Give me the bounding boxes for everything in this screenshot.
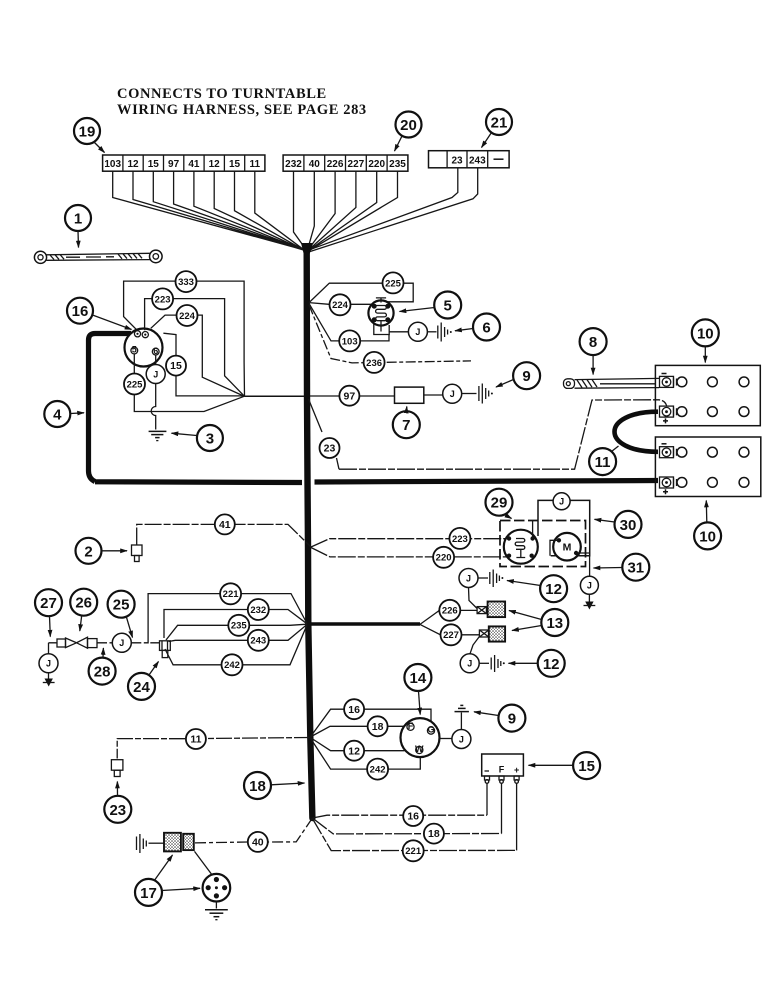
harness apex junction blob [301,243,313,254]
svg-text:13: 13 [546,615,563,632]
wire 11 from trunk to plug 23 [117,738,310,759]
svg-text:235: 235 [389,159,406,170]
wire 242 trunk to distributor bottom [310,738,420,769]
wire label 225 right [383,272,404,293]
upper ground wire from fitting to J [469,588,478,609]
wire 243 bundle left [169,625,308,642]
wire 225 from pin 5 down and to junction [134,354,244,412]
plug (item 23) [111,760,123,777]
terminal strip row 3 (blank, 23, 243, dash) [429,151,510,168]
callout circle 23 [104,782,131,823]
svg-text:16: 16 [72,303,89,320]
callout circle 16 [67,298,132,330]
wire 23 from trunk to battery negative [309,399,340,469]
svg-text:26: 26 [75,595,92,612]
junction circle J on 31 wire [580,576,598,594]
wire 220 from trunk to solenoid [311,548,509,557]
callout circle 1 [65,205,91,248]
svg-text:15: 15 [578,758,595,775]
callout circle 14 [404,664,431,715]
wire 221 bundle left [148,594,307,644]
svg-text:10: 10 [697,325,714,342]
junction circle J on housing top [553,493,570,510]
svg-text:224: 224 [332,300,349,311]
svg-text:103: 103 [104,159,121,170]
wire 16 bottom: trunk to regulator terminal 1 [312,815,487,818]
sender plug (item 2) [132,545,143,562]
lower fuse body (item 13) [489,626,505,641]
svg-text:220: 220 [368,159,385,170]
wire J to ground bars lower [479,662,489,664]
battery 2 terminal clamp upper (negative) [660,444,677,458]
callout circle 31 [594,554,650,581]
wire corner down to J ground (27) [48,643,50,654]
component 1 : link rod with ring ends [34,250,162,263]
callout circle 25 [108,591,135,638]
wire label 40 [248,832,268,852]
wire label 223 [152,288,173,309]
svg-text:97: 97 [344,390,356,402]
svg-text:J: J [587,581,592,591]
spray ground under J (27) [43,679,55,687]
callout circle 19 [74,118,105,153]
wire 103 from trunk to horn bracket [309,304,389,341]
earth ground (bottom, item 17) [205,910,228,920]
ground symbol (12 upper) vertical bars [490,570,504,588]
wire 225 (right) from trunk to horn top [309,283,413,302]
callout circle 21 [482,109,513,148]
motor internal wires [550,540,590,555]
pin 6 [152,348,159,355]
svg-text:3: 3 [206,431,214,448]
svg-text:+: + [514,765,519,775]
connector plug (item 24) [160,641,171,658]
callout circle 12 lower [509,650,565,677]
svg-text:1: 1 [74,211,82,228]
junction circle J at distributor [452,730,471,749]
callout circle 8 [580,328,607,374]
ground bars left of filter (17) [137,834,164,853]
svg-text:232: 232 [285,159,302,170]
svg-text:9: 9 [522,368,530,385]
wire box7 to J [424,394,443,396]
distributor / magneto (item 14) [401,718,440,757]
svg-text:F: F [499,765,505,775]
svg-text:J: J [459,734,464,744]
svg-text:2: 2 [84,543,92,560]
callout circle 28 [89,648,116,685]
svg-text:40: 40 [252,837,264,849]
junction bundle line to trunk [245,395,305,397]
terminal strip row 1 (wires 103 12 15 97 41 12 15 11) [103,155,265,171]
svg-text:19: 19 [79,124,96,141]
wire label 103 [339,330,360,351]
wire label 16 [344,699,364,719]
svg-text:8: 8 [589,334,597,351]
svg-text:220: 220 [436,553,452,564]
horn bracket [374,324,389,335]
wire label 225 [124,374,145,395]
callout circle 4 [44,401,84,427]
ground symbol (12 lower) vertical bars [491,655,505,672]
svg-text:23: 23 [451,156,463,167]
svg-text:15: 15 [229,159,241,170]
callout circle 17 with two arrows [135,855,200,906]
fan wires from row 3 (23, 243) to apex [308,168,477,252]
wire label 18 bottom [424,824,444,844]
wire J to ground bars [462,393,477,395]
fan wires from row 1 to harness apex [113,171,307,252]
wire label 333 [176,271,197,292]
junction circle J upper (12) [459,569,478,588]
svg-text:235: 235 [231,621,248,632]
callout circle 29 [486,489,513,519]
wire label 232 [248,599,269,620]
svg-text:236: 236 [366,358,382,369]
horn (item 5) [368,298,393,335]
callout circle 24 [128,662,159,700]
wire 227 [420,624,479,634]
svg-text:5: 5 [444,298,452,315]
svg-text:WIRING HARNESS, SEE PAGE 283: WIRING HARNESS, SEE PAGE 283 [117,102,367,118]
solenoid coil wire up to box top [532,521,534,539]
svg-text:223: 223 [452,534,468,545]
svg-text:16: 16 [348,704,360,716]
upper fuse connector fitting [477,607,486,614]
upper fuse body (item 13) [488,602,506,618]
wire label 220 [433,547,454,568]
connector 16 body [125,329,163,367]
svg-text:J: J [450,389,455,399]
wire label 16 bottom [403,806,423,826]
battery box 2 [655,437,760,497]
svg-text:4: 4 [53,407,62,424]
svg-text:J: J [559,496,564,506]
svg-text:18: 18 [428,828,440,840]
svg-text:221: 221 [223,589,240,600]
svg-text:5: 5 [132,345,137,355]
battery 1 terminal clamp lower (positive) [660,406,677,423]
svg-text:227: 227 [348,159,365,170]
wire from horn bracket to junction J (item 6 ground) [389,331,408,333]
callout circle 6 [455,314,500,341]
wire 40: trunk down-left to filter [194,818,312,843]
callout circle 9 bottom [474,705,525,732]
svg-text:12: 12 [127,159,139,170]
flasher box (item 7) [395,387,424,403]
wire label 235 [228,615,249,636]
wire label 221 [220,583,241,604]
svg-text:18: 18 [372,721,384,733]
junction circle J (27 ground) [39,654,58,673]
fan wires from row 2 to harness apex [294,171,398,251]
junction circle J lower (12) [460,654,479,673]
earth ground above J (item 9) [455,705,469,711]
svg-text:225: 225 [127,379,144,390]
svg-text:224: 224 [179,311,196,322]
terminal strip row 2 (wires 232 40 226 227 220 235) [283,155,408,171]
ground symbol (item 3) [149,431,167,440]
callout circle 12 upper [507,575,567,602]
svg-text:232: 232 [250,605,266,616]
jumper cable (item 11) thick U between batteries [615,412,659,452]
svg-text:20: 20 [400,117,417,134]
wire 224 loop [151,315,244,396]
junction circle J on 97 row [443,384,462,403]
wire 232 bundle left [164,610,307,639]
wire 236 stub from trunk [309,305,471,363]
wire label 221 bottom [403,840,424,861]
svg-text:11: 11 [250,159,261,170]
svg-text:226: 226 [442,606,458,617]
svg-text:243: 243 [250,636,266,647]
svg-text:J: J [153,369,158,379]
svg-text:221: 221 [405,846,422,857]
callout circle 30 [595,511,642,538]
lower fuse connector fitting [479,630,488,637]
wire J from pin 6 to ground, hop over 225 wire [151,355,156,429]
wire label 15 [166,356,186,376]
svg-text:J: J [467,659,472,669]
svg-text:41: 41 [219,519,231,531]
junction circle J below pin 6 [146,365,165,384]
wire label 236 [364,352,385,373]
svg-text:7: 7 [402,417,410,434]
callout circle 20 [395,112,422,152]
starter solenoid dashed housing (item 29) [500,521,586,567]
svg-text:W: W [415,744,424,754]
svg-text:27: 27 [40,595,57,612]
wire 41 from sender 2 to trunk [137,524,311,547]
svg-text:G: G [427,725,434,735]
svg-text:243: 243 [469,156,486,167]
svg-text:333: 333 [178,277,194,288]
svg-text:17: 17 [140,885,157,902]
svg-text:15: 15 [148,159,160,170]
svg-text:6: 6 [153,346,158,356]
svg-text:227: 227 [443,630,459,641]
svg-text:12: 12 [545,581,562,598]
svg-text:23: 23 [109,802,126,819]
wire 15 from connector to junction [163,333,244,396]
svg-text:40: 40 [309,159,321,170]
wire label 41 [215,514,235,534]
svg-text:J: J [119,638,124,648]
lower ground wire from fitting to J [470,637,479,654]
wire label 224 right [330,294,351,315]
callout circle 27 [35,589,62,636]
wire 333 loop [124,281,245,396]
wire J to ground bars upper [478,577,488,579]
svg-text:11: 11 [190,734,201,746]
starter motor housing (item 30) [538,500,590,555]
wire to earth ground below [215,902,217,909]
svg-text:225: 225 [385,278,402,289]
svg-text:12: 12 [543,656,560,673]
thick bundle stub from trunk to 226/227 split [310,622,420,625]
svg-text:28: 28 [94,664,111,681]
battery cable thick: horizontal run to battery (left of trunk) [95,479,302,485]
battery cable thick: horizontal run right of trunk into battery 2 clamp [315,481,659,483]
svg-text:14: 14 [410,670,427,687]
svg-text:226: 226 [327,159,344,170]
wire 18 trunk to distributor F [310,726,406,737]
ground symbol (item 6) vertical bars [438,323,452,342]
bullet connector pair (item 26) [57,637,97,648]
wire label 242 [222,654,243,675]
callout circle 15 [529,752,601,779]
wire 97 from trunk to flasher box [310,395,394,397]
wire distributor to J [440,738,452,740]
wire 224 (right) from trunk to horn left [309,303,371,305]
harness row to items 25-27: horizontal wire [49,642,160,644]
svg-text:24: 24 [133,679,150,696]
svg-text:223: 223 [155,294,171,305]
wire 226 [420,610,477,624]
wire 16 trunk to distributor [310,709,431,737]
battery 2 terminal clamp lower (positive) [660,477,677,494]
wire 221 bottom: trunk to regulator terminal 3 [312,819,516,851]
callout circle 9 top [496,362,540,389]
callout circle 7 [393,407,420,439]
ground strap (item 8) [564,378,660,388]
filter box A (item 17) [164,833,181,852]
callout circle 10 top [692,319,719,362]
svg-text:31: 31 [627,560,644,577]
wire label 243 [248,630,269,651]
wire 223 from trunk to solenoid [311,539,509,547]
svg-text:15: 15 [170,360,182,372]
wire 223 loop [145,299,244,396]
callout circle 10 bottom [694,501,721,550]
starter motor M circle [553,533,581,561]
svg-text:11: 11 [595,454,611,471]
pin top-left [134,331,140,337]
spray ground under J (31) [584,602,596,610]
solenoid body circle [504,530,538,564]
title text [117,86,367,118]
svg-text:12: 12 [348,745,360,757]
svg-text:25: 25 [113,597,130,614]
wire label 226 [439,600,460,621]
wire 18 bottom: trunk to regulator terminal 2 [312,818,501,834]
svg-text:F: F [408,721,414,731]
callout circle 18 [244,772,305,799]
svg-text:6: 6 [482,320,490,337]
main harness trunk [307,251,313,819]
battery cable thick: top horizontal into connector 16 [89,334,132,482]
svg-text:J: J [466,573,471,583]
wire 235 bundle left [166,624,307,640]
pin top-right [142,332,148,338]
svg-text:M: M [563,542,572,554]
wire 12 trunk to distributor [310,738,404,751]
filter box B (item 17) [183,834,194,850]
svg-text:30: 30 [620,517,637,534]
ignition coil round component (item 17) [203,874,231,902]
wire J to ground bars [427,331,436,333]
svg-text:242: 242 [370,765,386,776]
wire label 242 [367,759,388,780]
wire label 12 [344,741,364,761]
callout circle 3 [172,425,223,451]
wire J up to earth ground [460,713,462,730]
wire label 23 [320,438,340,458]
svg-text:97: 97 [168,159,180,170]
callout circle 13 with two arrows [509,609,568,636]
svg-text:21: 21 [491,115,508,132]
svg-text:J: J [46,659,51,669]
svg-text:CONNECTS TO TURNTABLE: CONNECTS TO TURNTABLE [117,86,327,102]
svg-text:J: J [415,327,420,337]
svg-text:18: 18 [249,778,266,795]
svg-text:23: 23 [324,443,336,455]
junction circle J at horn ground [408,322,427,341]
svg-text:9: 9 [508,711,516,728]
svg-text:41: 41 [188,159,200,170]
svg-text:242: 242 [224,660,240,671]
callout circle 26 [70,589,97,631]
voltage regulator (item 15) [482,754,524,783]
battery 1 terminal clamp upper (negative) [660,374,677,388]
svg-text:10: 10 [699,528,716,545]
wire label 223 right [449,528,470,549]
wire label 11 [186,729,206,749]
svg-text:12: 12 [209,159,221,170]
callout circle 2 [76,538,128,564]
wire from filter to spark plug component [195,851,216,880]
battery box 1 [655,365,760,425]
wire label 227 [441,624,462,645]
wire 242 bundle left [165,625,307,665]
junction circle J (item 25 row) [112,633,131,652]
wire from motor housing down to J and chassis ground (31) [589,556,591,576]
pin 5 [131,347,138,354]
callout circle 11 [589,446,618,475]
svg-text:29: 29 [491,495,508,512]
ground symbol (9, top) vertical bars [479,384,493,404]
svg-text:103: 103 [342,336,358,347]
svg-text:16: 16 [407,811,419,823]
callout circle 5 [400,292,462,319]
wire label 18 [368,716,388,736]
wire label 224 [177,305,198,326]
wire label 97 [339,386,359,406]
